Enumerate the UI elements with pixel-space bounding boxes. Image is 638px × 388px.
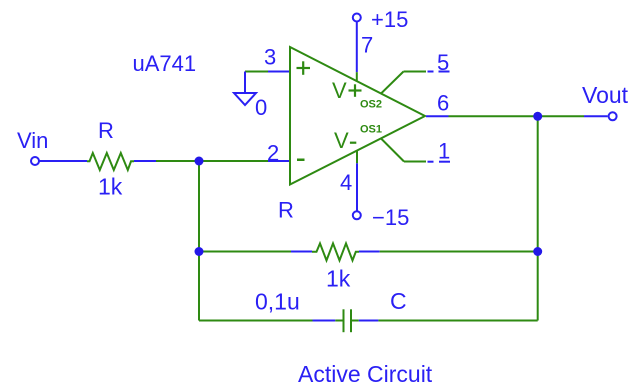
wire pin 5 (OS2) (381, 72, 450, 94)
terminal Vin (31, 157, 39, 165)
svg-text:uA741: uA741 (133, 51, 197, 76)
svg-text:V: V (334, 128, 349, 153)
svg-text:0: 0 (255, 95, 267, 120)
svg-text:Active Circuit: Active Circuit (298, 361, 433, 387)
wire R1 to node A (156, 160, 199, 162)
svg-text:5: 5 (437, 50, 449, 75)
svg-text:V: V (332, 78, 347, 103)
svg-text:R: R (98, 118, 114, 143)
wire node B to Vout (538, 115, 608, 117)
wire left vertical node A down (198, 161, 200, 321)
svg-text:3: 3 (264, 45, 276, 70)
terminal -15 (353, 211, 361, 219)
capacitor C1 row (199, 309, 538, 332)
svg-text:OS1: OS1 (360, 124, 382, 136)
ground (234, 93, 256, 105)
node B junction dot (533, 112, 542, 121)
op-amp label V+ (332, 78, 362, 103)
wire pin 7 (356, 22, 358, 82)
svg-text:0,1u: 0,1u (255, 289, 300, 315)
op-amp U1 triangle (290, 47, 425, 185)
terminal Vout (609, 112, 617, 120)
svg-text:6: 6 (437, 91, 449, 116)
node C junction dot (left, feedback R row) (195, 247, 204, 256)
op-amp label V- (334, 128, 356, 153)
svg-text:7: 7 (361, 33, 373, 58)
wire Vin lead (40, 160, 88, 162)
wire pin 3 (245, 72, 290, 94)
svg-text:2: 2 (267, 141, 279, 166)
svg-text:1k: 1k (326, 266, 351, 292)
wire node A to pin 2 (199, 160, 290, 162)
svg-text:C: C (390, 288, 407, 314)
svg-text:R: R (278, 198, 294, 223)
svg-text:OS2: OS2 (360, 99, 382, 111)
resistor R1 (87, 153, 156, 170)
node D junction dot (right, feedback R row) (533, 247, 542, 256)
svg-text:+15: +15 (371, 7, 408, 32)
svg-text:1k: 1k (98, 174, 123, 200)
wire pin 6 output (426, 115, 538, 117)
wire pin 4 (356, 151, 358, 212)
resistor R2 feedback (199, 243, 538, 260)
op-amp minus input mark (297, 159, 305, 162)
node A junction dot (195, 157, 204, 166)
wire right vertical node B down (537, 116, 539, 320)
svg-text:Vout: Vout (582, 82, 629, 108)
svg-text:Vin: Vin (17, 128, 48, 153)
op-amp plus input mark (297, 61, 311, 75)
terminal +15 (353, 14, 361, 22)
svg-text:4: 4 (340, 170, 352, 195)
svg-text:1: 1 (438, 139, 450, 164)
wire pin 1 (OS1) (381, 139, 450, 162)
svg-text:−15: −15 (372, 205, 409, 230)
